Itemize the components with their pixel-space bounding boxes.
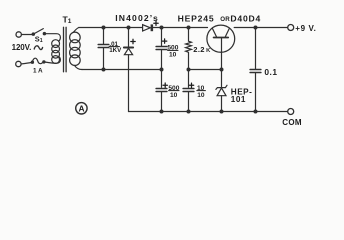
terminal +9V [288,25,294,31]
capacitor .01 1KV [98,28,109,70]
node C2 bottom [160,110,163,113]
svg-text:10: 10 [197,92,205,99]
transformer T1 core [64,27,67,72]
plus marks [131,21,194,88]
top rail after diode [153,27,207,29]
transformer T1 primary winding [52,40,60,64]
svg-text:+9 V.: +9 V. [295,24,316,33]
wire secondary top to top rail [73,28,79,33]
node base/zener [220,68,223,71]
figure marker A [76,103,87,114]
node C3 bottom [187,110,190,113]
svg-text:10: 10 [170,92,178,99]
label C2 500/10 fraction [168,85,180,99]
svg-text:A: A [79,103,85,113]
node zener bottom [220,110,223,113]
svg-text:S1: S1 [35,35,43,45]
svg-text:COM: COM [282,118,302,127]
wire fuse to transformer primary bottom [44,56,60,63]
capacitor C1 500/10 upper [156,28,167,70]
node shunt diode top [127,26,130,29]
top rail (rectifier input) [79,27,143,29]
svg-text:T1: T1 [63,15,72,26]
svg-text:2.2K: 2.2K [193,45,211,54]
svg-text:10: 10 [169,51,177,58]
node C1 top [160,26,163,29]
mid rail (secondary bottom to doubler midpoint) [82,69,162,71]
node 0.1 bottom [254,110,257,113]
top rail transistor to +9V terminal [234,27,287,29]
wire secondary bottom to mid rail [75,65,83,69]
terminal COM [288,109,294,115]
svg-text:1A: 1A [33,68,44,75]
diode D1 series 1N4002 [143,24,154,31]
wire switch to transformer primary top [44,34,60,42]
svg-text:0.1: 0.1 [264,67,277,77]
svg-text:1KV: 1KV [109,47,122,54]
120V AC tilde [34,46,42,50]
node doubler midpoint [160,68,163,71]
capacitor C3 10/10 [183,70,194,112]
node 0.1 cap top [254,26,257,29]
svg-text:D40D4: D40D4 [230,14,261,24]
svg-text:OR: OR [220,16,230,23]
resistor 2.2K [186,28,192,70]
svg-text:120V.: 120V. [12,43,32,52]
svg-text:IN4002’s: IN4002’s [115,13,159,23]
zener diode HEP-101 [216,70,227,112]
svg-text:101: 101 [231,95,246,104]
transformer T1 secondary winding [70,32,81,65]
transistor Q1 HEP245/D40D4 [207,25,235,69]
base rail [189,69,222,71]
diode D2 shunt 1N4002 [124,28,133,112]
label .01/1KV fraction [109,41,122,54]
node resistor bottom [187,68,190,71]
capacitor 0.1 [250,28,261,112]
terminal bottom-left (120V input neutral) [16,61,21,66]
node .01 bottom [102,68,105,71]
capacitor C2 500/10 lower [156,70,167,112]
switch S1 [32,29,45,36]
label C3 10/10 fraction [196,85,205,99]
node resistor top [187,26,190,29]
node .01 cap top [102,26,105,29]
terminal top-left (120V input hot) [16,32,21,37]
bottom rail (common) [129,111,288,113]
label C1 500/10 fraction [167,45,179,59]
wire terminal to fuse [21,62,32,64]
svg-text:HEP245: HEP245 [178,14,215,24]
fuse 1A [31,58,45,63]
wire terminal to switch [22,34,33,36]
